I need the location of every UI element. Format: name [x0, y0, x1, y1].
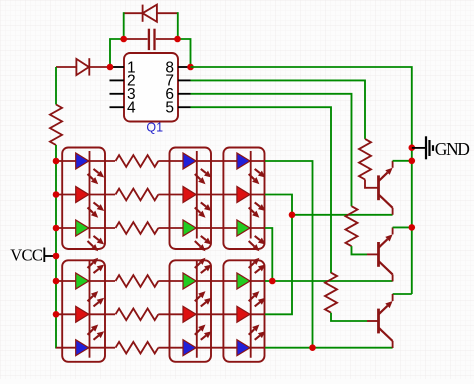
rgb led block bank1 col3 outline	[223, 148, 264, 250]
wire transistor 1 emitter to GND rail	[393, 160, 412, 162]
led common bar bank2 col3	[250, 260, 252, 358]
led common bar bank2 col1	[89, 260, 91, 358]
pin 4 stub	[110, 106, 125, 108]
resistor (base of transistor 2)	[346, 206, 358, 246]
led arrows bank2 col2 row3	[195, 329, 201, 334]
resistor bank1 row1	[116, 155, 159, 167]
rgb led block bank2 col2 outline	[170, 260, 212, 362]
led blue bank1 col3 row1	[237, 153, 250, 169]
node rail bank2 row2	[53, 311, 60, 318]
pin 5 stub	[178, 106, 191, 108]
wire blue net: top row1 to bottom row3	[265, 161, 313, 348]
diode (left, pointing right)	[56, 58, 110, 75]
led blue bank1 col1 row1	[76, 153, 89, 169]
pin 2 stub	[110, 79, 125, 81]
wire bottom row3 to transistor 3 collector	[265, 347, 393, 349]
rgb led block bank1 col1 outline	[62, 148, 105, 250]
IC Q1 body	[124, 53, 178, 122]
node green net junction	[269, 278, 276, 285]
led arrows bank2 col3 row3	[249, 329, 255, 334]
resistor (base of transistor 3)	[325, 273, 337, 313]
pin 8 stub	[178, 66, 191, 68]
wire bank1 row1 horizontal	[56, 160, 115, 162]
led green bank2 col1 row1	[76, 273, 89, 289]
pin 6 stub	[178, 93, 191, 95]
wire bank1 row3 horizontal cont	[158, 227, 265, 229]
wire bank2 row2 horizontal cont	[158, 313, 265, 315]
VCC port	[43, 248, 45, 263]
led arrows bank2 col2 row1	[195, 263, 201, 268]
led arrows bank1 col1 row1	[88, 174, 94, 179]
led arrows bank2 col3 row2	[249, 296, 255, 301]
led green bank2 col3 row1	[237, 273, 250, 289]
led red bank1 col1 row2	[76, 187, 89, 203]
wire left vertical to resistor	[55, 67, 57, 105]
node rail bank1 row3	[53, 225, 60, 232]
wire pin7 down	[191, 80, 366, 138]
wire top-left vertical (diode to cap rail)	[123, 12, 125, 39]
node red net junction	[289, 212, 296, 219]
led green bank1 col2 row3	[183, 220, 196, 236]
diode (top, pointing left)	[124, 5, 178, 22]
node cap right junction	[174, 36, 181, 43]
resistor bank1 row3	[116, 222, 159, 234]
wire bank1 row2 horizontal	[56, 194, 115, 196]
led blue bank2 col3 row3	[237, 340, 250, 356]
wire cap-right to pin8 drop	[178, 39, 191, 67]
wire bank2 row3 horizontal	[56, 347, 115, 349]
node rail bank1 row2	[53, 191, 60, 198]
led arrows bank1 col3 row1	[249, 174, 255, 179]
led common bar bank2 col2	[196, 260, 198, 358]
wire red net to transistor 1 collector	[292, 214, 393, 216]
led blue bank2 col1 row3	[76, 340, 89, 356]
wire bank1 row1 horizontal cont	[158, 160, 265, 162]
node rail bank2 row1	[53, 278, 60, 285]
node pin1 junction	[107, 64, 114, 71]
led arrows bank1 col2 row1	[195, 174, 201, 179]
capacitor	[124, 29, 178, 50]
led arrows bank2 col1 row1	[88, 263, 94, 268]
led red bank2 col2 row2	[183, 306, 196, 322]
svg-text:4: 4	[127, 100, 136, 117]
led red bank2 col1 row2	[76, 306, 89, 322]
led arrows bank2 col2 row2	[195, 296, 201, 301]
resistor bank2 row2	[116, 309, 159, 321]
wire VCC rail vertical	[55, 145, 57, 349]
wire resistor to transistor 1 base	[365, 180, 367, 188]
node VCC junction	[53, 253, 60, 260]
pin 7 stub	[178, 79, 191, 81]
resistor bank2 row1	[116, 275, 159, 287]
wire green net: top row3 down	[265, 228, 272, 281]
npn transistor 3	[367, 294, 393, 348]
wire bank2 row1 horizontal cont	[158, 280, 265, 282]
led red bank2 col3 row2	[237, 306, 250, 322]
npn transistor 1	[367, 161, 393, 215]
node cap left junction	[120, 36, 127, 43]
wire bank1 row3 horizontal	[56, 227, 115, 229]
wire top-right vertical (diode to cap rail)	[177, 12, 179, 39]
node GND junction	[409, 144, 416, 151]
led arrows bank2 col1 row2	[88, 296, 94, 301]
wire bank2 row3 horizontal cont	[158, 347, 265, 349]
npn transistor 2	[367, 227, 393, 281]
pin 3 stub	[110, 93, 125, 95]
led common bar bank1 col1	[89, 151, 91, 239]
rgb led block bank2 col1 outline	[62, 260, 105, 362]
led green bank1 col3 row3	[237, 220, 250, 236]
led arrows bank1 col1 row2	[88, 208, 94, 213]
svg-text:VCC: VCC	[10, 245, 43, 264]
wire resistor to transistor 2 base	[352, 246, 368, 254]
svg-text:5: 5	[165, 100, 174, 117]
led arrows bank2 col1 row3	[88, 329, 94, 334]
resistor (base of transistor 1)	[359, 139, 371, 180]
wire resistor to transistor 3 base	[331, 313, 367, 321]
led green bank2 col2 row1	[183, 273, 196, 289]
svg-text:Q1: Q1	[146, 121, 163, 135]
node pin8 junction	[187, 64, 194, 71]
node blue net junction	[309, 344, 316, 351]
resistor bank1 row2	[116, 189, 159, 201]
led common bar bank1 col2	[196, 151, 198, 239]
led red bank1 col3 row2	[237, 187, 250, 203]
led common bar bank1 col3	[250, 151, 252, 239]
svg-text:GND: GND	[435, 139, 469, 159]
wire pin5 down	[191, 107, 332, 273]
led green bank1 col1 row3	[76, 220, 89, 236]
pin 1 stub	[110, 66, 125, 68]
led arrows bank1 col1 row3	[88, 241, 94, 246]
wire GND rail step to transistor 3 emitter	[393, 293, 412, 295]
wire bank2 row1 horizontal	[56, 280, 115, 282]
wire pin6 down	[191, 94, 352, 206]
led arrows bank1 col2 row3	[195, 241, 201, 246]
rgb led block bank2 col3 outline	[223, 260, 264, 362]
wire pin8 to GND rail	[191, 67, 412, 294]
led blue bank1 col2 row1	[183, 153, 196, 169]
node transistor 2 emitter on rail	[409, 224, 416, 231]
wire cap-left to pin1 drop	[110, 39, 124, 67]
led arrows bank1 col3 row3	[249, 241, 255, 246]
ground symbol	[412, 136, 433, 159]
led arrows bank1 col2 row2	[195, 208, 201, 213]
wire green net bottom row1 to transistor 2 collector	[265, 280, 393, 282]
led arrows bank1 col3 row2	[249, 208, 255, 213]
node rail bank1 row1	[53, 158, 60, 165]
resistor (left, VCC feed)	[50, 105, 62, 146]
resistor bank2 row3	[116, 342, 159, 354]
wire red net: top row2 down	[265, 195, 292, 315]
wire bank2 row2 horizontal	[56, 313, 115, 315]
led red bank1 col2 row2	[183, 187, 196, 203]
led arrows bank2 col3 row1	[249, 263, 255, 268]
led blue bank2 col2 row3	[183, 340, 196, 356]
wire transistor 2 emitter to GND rail	[393, 226, 412, 228]
node transistor 1 emitter on rail	[409, 158, 416, 165]
wire bank1 row2 horizontal cont	[158, 194, 265, 196]
rgb led block bank1 col2 outline	[170, 148, 212, 250]
